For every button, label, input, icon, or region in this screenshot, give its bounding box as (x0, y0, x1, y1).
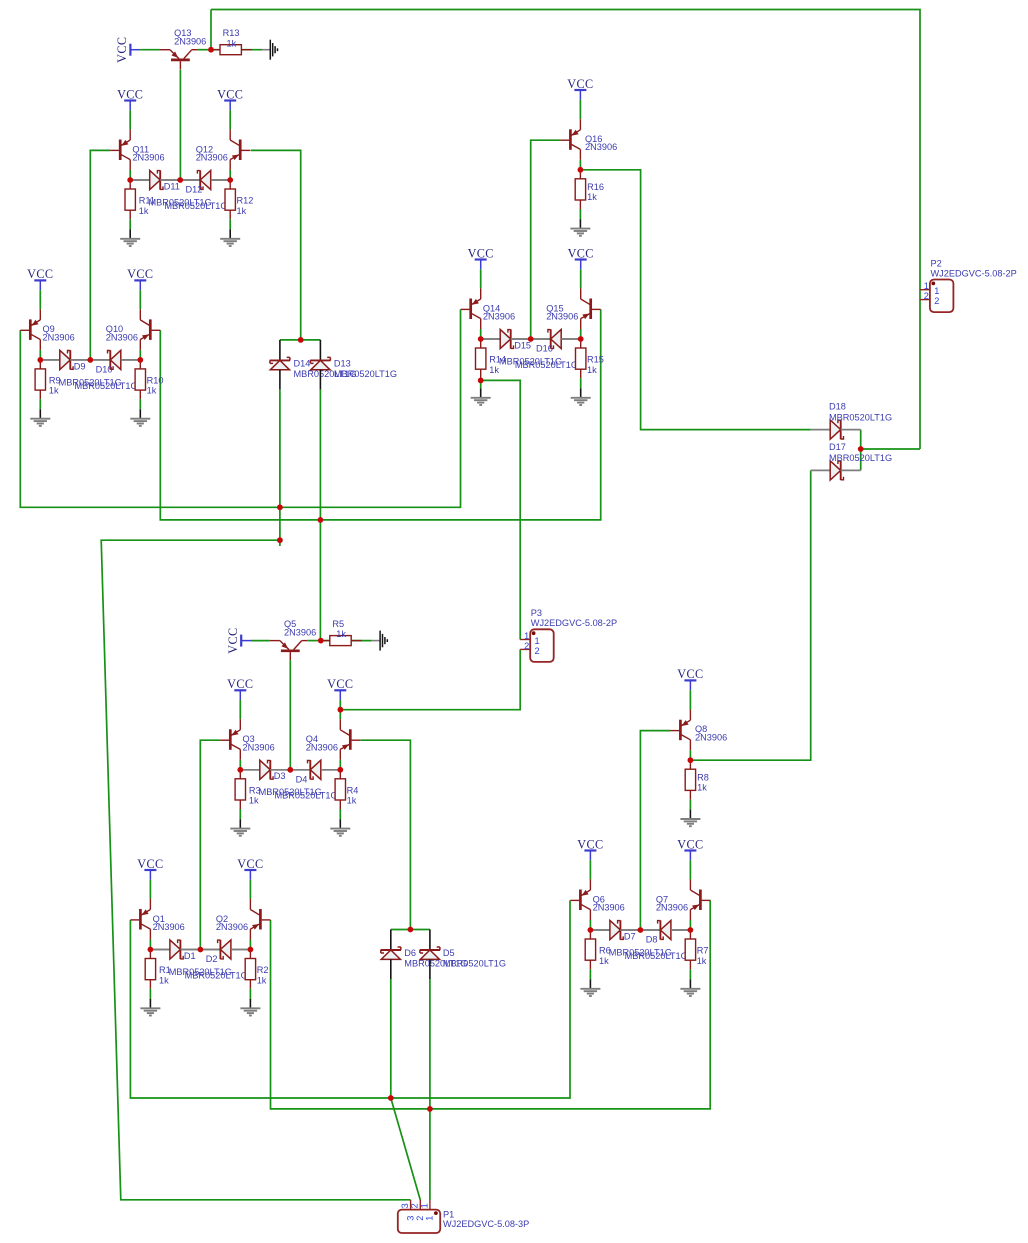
node Q7 emitter / D8 / R7 (688, 927, 694, 933)
wire R4 to ground (339, 809, 341, 819)
diode D15 (481, 338, 501, 340)
svg-text:D6: D6 (404, 948, 416, 958)
transistor Q13 (171, 59, 190, 62)
diode D9 (40, 359, 60, 361)
transistor Q6 (579, 890, 582, 911)
wire diode row D1/D2 (150, 949, 250, 951)
wire Q15 emitter to node (580, 329, 582, 339)
wire R14 to ground (480, 378, 482, 388)
svg-text:2N3906: 2N3906 (593, 903, 625, 913)
resistor R16 (579, 170, 581, 179)
svg-text:D18: D18 (829, 401, 846, 411)
resistor R12 (229, 180, 231, 189)
wire VCC to Q12 collector (229, 110, 231, 129)
node Q6 collector / D7 / R6 (588, 927, 594, 933)
svg-text:2N3906: 2N3906 (153, 922, 185, 932)
node Q3 collector / D3 / R3 (237, 767, 243, 773)
svg-text:2N3906: 2N3906 (106, 332, 138, 342)
diode D8 (640, 929, 660, 931)
svg-text:D7: D7 (624, 931, 636, 941)
resistor R1 (149, 950, 151, 959)
transistor Q8 (679, 720, 682, 741)
svg-text:VCC: VCC (226, 627, 240, 653)
wire Q12 base to D14/D13 node (251, 150, 301, 340)
svg-text:P2: P2 (931, 258, 942, 268)
svg-text:D11: D11 (164, 181, 180, 191)
svg-text:2: 2 (524, 641, 529, 651)
svg-text:1k: 1k (347, 796, 357, 806)
diode D18 (811, 429, 831, 431)
wire R8 to ground (689, 799, 691, 809)
wire D14 anode down (279, 389, 281, 546)
svg-text:WJ2EDGVC-5.08-2P: WJ2EDGVC-5.08-2P (931, 268, 1017, 278)
svg-text:D12: D12 (186, 185, 203, 195)
svg-text:VCC: VCC (677, 667, 703, 681)
wire Q2 base / wire B / Q7 base net (271, 900, 711, 1109)
svg-text:VCC: VCC (227, 677, 253, 691)
svg-text:R7: R7 (697, 946, 709, 956)
svg-text:R9: R9 (49, 376, 61, 386)
diode D17 (811, 469, 831, 471)
wire P1 pin 2 slant (391, 1098, 421, 1200)
wire Q9 base / D14 / Q14 base net (20, 309, 460, 507)
connector P1 (398, 1210, 440, 1233)
node Q4 emitter branch (338, 707, 344, 713)
svg-text:1k: 1k (257, 975, 267, 985)
node center D3/D4 (287, 767, 293, 773)
ground (R6) (589, 979, 591, 988)
svg-text:D17: D17 (829, 442, 846, 452)
node Q1 collector / D1 / R1 (148, 947, 154, 953)
wire Q4 emitter to node (339, 760, 341, 770)
wire diode row D15/D16 (481, 338, 581, 340)
wire Q10 base / D13 / Q15 base net (160, 309, 600, 520)
wire D18/D17 cathode node (860, 430, 862, 471)
node Q15 emitter / D16 / R15 (578, 336, 584, 342)
ground (R13) (262, 49, 270, 51)
svg-text:VCC: VCC (217, 87, 243, 101)
svg-text:1k: 1k (599, 956, 609, 966)
svg-text:1k: 1k (49, 386, 59, 396)
wire Q10 emitter to node (139, 350, 141, 360)
ground (R9) (39, 409, 41, 418)
node Q14 collector / D15 / R14 (478, 336, 484, 342)
wire Q5 collector to node (307, 640, 321, 642)
wire R15 to ground (580, 378, 582, 388)
diode D16 (531, 338, 551, 340)
svg-text:1k: 1k (489, 365, 499, 375)
resistor R15 (580, 339, 582, 348)
svg-text:1k: 1k (139, 206, 149, 216)
wire top rail to P2 column (211, 10, 920, 450)
node Q8 collector / R8 / D17 branch (688, 757, 694, 763)
transistor Q2 (259, 909, 262, 930)
node Q11 collector / D11 / R11 (127, 177, 133, 183)
svg-text:1k: 1k (697, 783, 707, 793)
transistor Q12 (239, 140, 242, 161)
svg-text:D16: D16 (536, 344, 553, 354)
svg-text:2N3906: 2N3906 (483, 312, 515, 322)
wire VCC to Q9 emitter (39, 290, 41, 309)
wire R16 to ground (579, 209, 581, 219)
resistor R2 (249, 950, 251, 959)
transistor Q11 (119, 140, 122, 161)
svg-text:R15: R15 (587, 355, 604, 365)
wire D6 anode down to wire A (390, 979, 392, 1098)
svg-text:D2: D2 (206, 954, 218, 964)
svg-text:D5: D5 (443, 948, 455, 958)
svg-text:2: 2 (924, 291, 929, 301)
svg-text:1: 1 (425, 1216, 435, 1221)
diode D13 (319, 340, 321, 361)
svg-text:VCC: VCC (468, 246, 494, 260)
wire Q1 collector to node (149, 940, 151, 950)
wire Q13 collector to node (197, 49, 211, 51)
svg-text:P1: P1 (443, 1209, 454, 1219)
wire Q11 base to Q9/Q10 center node (90, 150, 110, 360)
svg-text:R12: R12 (237, 196, 254, 206)
node Q2 emitter / D2 / R2 (248, 947, 254, 953)
transistor Q4 (349, 729, 352, 750)
wire VCC to Q13 emitter (140, 49, 160, 51)
transistor Q9 (29, 319, 32, 340)
wire VCC to Q7 collector (689, 860, 691, 879)
ground (R2) (249, 999, 251, 1008)
svg-text:D1: D1 (184, 951, 196, 961)
wire Q8 collector to node (689, 750, 691, 760)
svg-text:1k: 1k (587, 365, 597, 375)
svg-text:MBR0520LT1G: MBR0520LT1G (625, 951, 688, 961)
wire diode row D7/D8 (590, 929, 690, 931)
wire Q16 collector to D18 anode (580, 170, 810, 430)
wire Q3 collector to node (239, 760, 241, 770)
wire VCC to Q16 emitter (579, 100, 581, 119)
wire node to ground (321, 640, 372, 642)
wire diode row D9/D10 (40, 359, 140, 361)
svg-text:MBR0520LT1G: MBR0520LT1G (164, 201, 227, 211)
svg-text:D10: D10 (96, 365, 113, 375)
diode D2 (200, 949, 220, 951)
svg-text:2N3906: 2N3906 (284, 628, 316, 638)
wire Q7 emitter to node (689, 920, 691, 930)
diode D14 (279, 340, 281, 361)
svg-text:1: 1 (419, 1203, 429, 1208)
ground (R1) (149, 999, 151, 1008)
wire VCC to Q4 collector (339, 700, 341, 719)
diode D6 (390, 930, 392, 951)
wire R11 to ground (129, 219, 131, 229)
svg-text:R16: R16 (587, 182, 604, 192)
wire node to ground (211, 49, 262, 51)
svg-text:D9: D9 (74, 361, 86, 371)
diode D12 (180, 179, 200, 181)
wire diode row D3/D4 (240, 769, 340, 771)
svg-text:2: 2 (415, 1216, 425, 1221)
ground (R8) (689, 810, 691, 819)
svg-text:2N3906: 2N3906 (196, 153, 228, 163)
wire Q3 base to Q1/Q2 center node (200, 740, 220, 949)
svg-text:VCC: VCC (577, 837, 603, 851)
ground (R4) (339, 819, 341, 828)
ground (R10) (139, 409, 141, 418)
node Q13 collector / R13 / rail (208, 47, 214, 53)
svg-text:MBR0520LT1G: MBR0520LT1G (829, 412, 892, 422)
svg-text:1k: 1k (159, 975, 169, 985)
svg-text:VCC: VCC (27, 267, 53, 281)
node wire 520 x D13 (318, 517, 324, 523)
ground (R15) (580, 388, 582, 397)
svg-text:VCC: VCC (137, 857, 163, 871)
svg-text:MBR0520LT1G: MBR0520LT1G (275, 791, 338, 801)
wire diode row D11/D12 (130, 179, 230, 181)
ground (R5) (372, 640, 380, 642)
node center D15/D16 (528, 336, 534, 342)
resistor R5 (321, 640, 330, 642)
svg-text:2N3906: 2N3906 (656, 903, 688, 913)
svg-text:1k: 1k (336, 629, 346, 639)
node Q9 collector / D9 / R9 (37, 357, 43, 363)
svg-text:3: 3 (405, 1216, 415, 1221)
svg-text:1k: 1k (147, 386, 157, 396)
svg-text:2: 2 (410, 1203, 420, 1208)
svg-text:2: 2 (535, 646, 540, 656)
resistor R10 (139, 360, 141, 369)
ground (R12) (229, 229, 231, 238)
svg-text:D13: D13 (334, 358, 351, 368)
svg-text:1k: 1k (697, 956, 707, 966)
svg-text:2N3906: 2N3906 (216, 922, 248, 932)
wire cathode node to P2 column (861, 448, 920, 450)
svg-text:D3: D3 (274, 771, 286, 781)
svg-text:D8: D8 (646, 935, 658, 945)
resistor R11 (129, 180, 131, 189)
svg-text:P3: P3 (531, 608, 542, 618)
wire D13 anode to Q5 node (319, 389, 321, 640)
wire VCC to Q14 emitter (480, 269, 482, 288)
ground (R14) (480, 388, 482, 397)
wire Q4 base to D6/D5 node (360, 740, 410, 929)
wire Q6 collector to node (589, 920, 591, 930)
node Q10 emitter / D10 / R10 (137, 357, 143, 363)
svg-text:MBR0520LT1G: MBR0520LT1G (443, 959, 506, 969)
svg-text:2N3906: 2N3906 (43, 332, 75, 342)
svg-text:2N3906: 2N3906 (695, 732, 727, 742)
svg-text:VCC: VCC (677, 837, 703, 851)
node center D9/D10 (87, 357, 93, 363)
wire Q14 collector to node (480, 329, 482, 339)
wire R12 to ground (229, 219, 231, 229)
wire Q11 collector to node (129, 170, 131, 180)
node wire B x D5 (427, 1106, 433, 1112)
wire Q13 base to D11/D12 center node (179, 69, 181, 180)
svg-text:1k: 1k (227, 38, 237, 48)
svg-text:D14: D14 (294, 358, 311, 368)
ground (R11) (129, 229, 131, 238)
node D14/D13 top (298, 337, 304, 343)
svg-text:2: 2 (934, 296, 939, 306)
wire R10 to ground (139, 399, 141, 409)
svg-text:R13: R13 (223, 28, 240, 38)
diode D7 (590, 929, 610, 931)
ground (R16) (579, 219, 581, 228)
node center D7/D8 (638, 927, 644, 933)
transistor Q3 (229, 729, 232, 750)
wire Q16 base to Q14/Q15 center node (531, 140, 561, 339)
diode D1 (150, 949, 170, 951)
svg-text:MBR0520LT1G: MBR0520LT1G (75, 381, 138, 391)
diode D5 (429, 930, 431, 951)
node D18/D17 cathodes (858, 446, 864, 452)
wire D14 node to P1 pin 3 (101, 540, 410, 1200)
node Q5 collector / R5 / D13 (318, 638, 324, 644)
svg-text:VCC: VCC (568, 246, 594, 260)
wire Q12 emitter to node (229, 170, 231, 180)
wire R6 to ground (589, 969, 591, 979)
node below R14 (478, 378, 484, 384)
svg-text:R1: R1 (159, 965, 171, 975)
svg-text:WJ2EDGVC-5.08-2P: WJ2EDGVC-5.08-2P (531, 618, 617, 628)
svg-text:1: 1 (934, 286, 939, 296)
node wire 540 x D14 (277, 537, 283, 543)
node center D11/D12 (177, 177, 183, 183)
transistor Q14 (469, 299, 472, 320)
node D6/D5 top (408, 927, 414, 933)
svg-text:VCC: VCC (567, 77, 593, 91)
svg-text:MBR0520LT1G: MBR0520LT1G (185, 970, 248, 980)
svg-text:R14: R14 (489, 355, 506, 365)
resistor R4 (339, 770, 341, 779)
node Q16 collector / R16 / D18 branch (578, 167, 584, 173)
svg-text:R10: R10 (147, 376, 164, 386)
ground (R7) (689, 979, 691, 988)
wire R3 to ground (239, 809, 241, 819)
transistor Q7 (699, 890, 702, 911)
svg-text:VCC: VCC (237, 857, 263, 871)
svg-text:WJ2EDGVC-5.08-3P: WJ2EDGVC-5.08-3P (443, 1219, 529, 1229)
svg-text:1: 1 (524, 631, 529, 641)
ground (R3) (239, 819, 241, 828)
wire VCC to Q5 emitter (251, 640, 270, 642)
svg-text:R4: R4 (347, 785, 359, 795)
transistor Q10 (149, 319, 152, 340)
svg-text:2N3906: 2N3906 (243, 742, 275, 752)
wire Q5 base to Q3/Q4 center node (289, 660, 291, 770)
resistor R9 (39, 360, 41, 369)
svg-text:VCC: VCC (327, 677, 353, 691)
wire VCC to Q11 emitter (129, 110, 131, 129)
resistor R3 (239, 770, 241, 779)
wire Q1 base / wire A / Q6 base net (130, 900, 570, 1098)
transistor Q1 (139, 909, 142, 930)
node Q12 emitter / D12 / R12 (227, 177, 233, 183)
svg-text:R5: R5 (332, 619, 344, 629)
wire VCC to Q15 collector (580, 269, 582, 288)
wire R14 node to P3 pin 1 (481, 380, 521, 639)
diode D3 (240, 769, 259, 771)
wire Q16 collector to node (579, 160, 581, 170)
wire D17 anode to Q8 collector node (690, 470, 810, 760)
svg-text:VCC: VCC (127, 267, 153, 281)
node wire 507 x D14 (277, 504, 283, 510)
wire Q4 emitter node to P3 pin 2 (340, 649, 520, 709)
svg-text:2N3906: 2N3906 (132, 153, 164, 163)
svg-text:2N3906: 2N3906 (174, 37, 206, 47)
svg-text:2N3906: 2N3906 (585, 142, 617, 152)
transistor Q15 (589, 299, 592, 320)
svg-text:R2: R2 (257, 965, 269, 975)
svg-text:VCC: VCC (117, 87, 143, 101)
resistor R6 (589, 930, 591, 939)
wire R1 to ground (149, 989, 151, 999)
node Q4 emitter / D4 / R4 (337, 767, 343, 773)
svg-text:3: 3 (400, 1203, 410, 1208)
resistor R13 (211, 49, 220, 51)
svg-text:R11: R11 (139, 196, 155, 206)
svg-text:R3: R3 (249, 785, 261, 795)
svg-text:R6: R6 (599, 946, 611, 956)
wire P1 pin 1 riser (429, 1109, 431, 1200)
svg-text:MBR0520LT1G: MBR0520LT1G (515, 360, 578, 370)
wire VCC to Q1 emitter (149, 880, 151, 899)
svg-text:MBR0520LT1G: MBR0520LT1G (829, 453, 892, 463)
resistor R14 (480, 339, 482, 348)
wire D14/D13 top node (280, 339, 321, 341)
wire Q8 base to Q6/Q7 center node (640, 731, 670, 930)
wire VCC to Q2 collector (249, 880, 251, 899)
diode D4 (290, 769, 310, 771)
node wire A x D6 (388, 1095, 394, 1101)
diode D10 (90, 359, 110, 361)
svg-text:R8: R8 (697, 773, 709, 783)
svg-text:1: 1 (535, 636, 540, 646)
svg-text:VCC: VCC (115, 37, 129, 63)
transistor Q5 (281, 649, 300, 652)
svg-text:D4: D4 (296, 774, 308, 784)
wire R2 to ground (249, 989, 251, 999)
wire VCC to Q8 emitter (689, 690, 691, 709)
wire R9 to ground (39, 399, 41, 409)
wire VCC to Q6 emitter (589, 860, 591, 879)
svg-text:D15: D15 (514, 340, 531, 350)
svg-text:1: 1 (924, 281, 929, 291)
svg-text:1k: 1k (249, 796, 259, 806)
wire VCC to Q3 emitter (239, 700, 241, 719)
node center D1/D2 (198, 947, 204, 953)
wire D6/D5 top node (391, 929, 430, 931)
wire R7 to ground (689, 969, 691, 979)
svg-text:MBR0520LT1G: MBR0520LT1G (334, 369, 397, 379)
svg-text:2N3906: 2N3906 (306, 742, 338, 752)
diode D11 (130, 179, 150, 181)
wire Q2 emitter to node (249, 940, 251, 950)
resistor R7 (689, 930, 691, 939)
svg-text:1k: 1k (587, 192, 597, 202)
wire VCC to Q10 collector (139, 290, 141, 309)
resistor R8 (689, 760, 691, 769)
svg-text:1k: 1k (237, 206, 247, 216)
wire Q9 collector to node (39, 350, 41, 360)
svg-text:2N3906: 2N3906 (546, 312, 578, 322)
wire Q13 node to top rail (210, 10, 212, 50)
wire D5 anode down to wire B (429, 979, 431, 1109)
transistor Q16 (569, 129, 572, 150)
